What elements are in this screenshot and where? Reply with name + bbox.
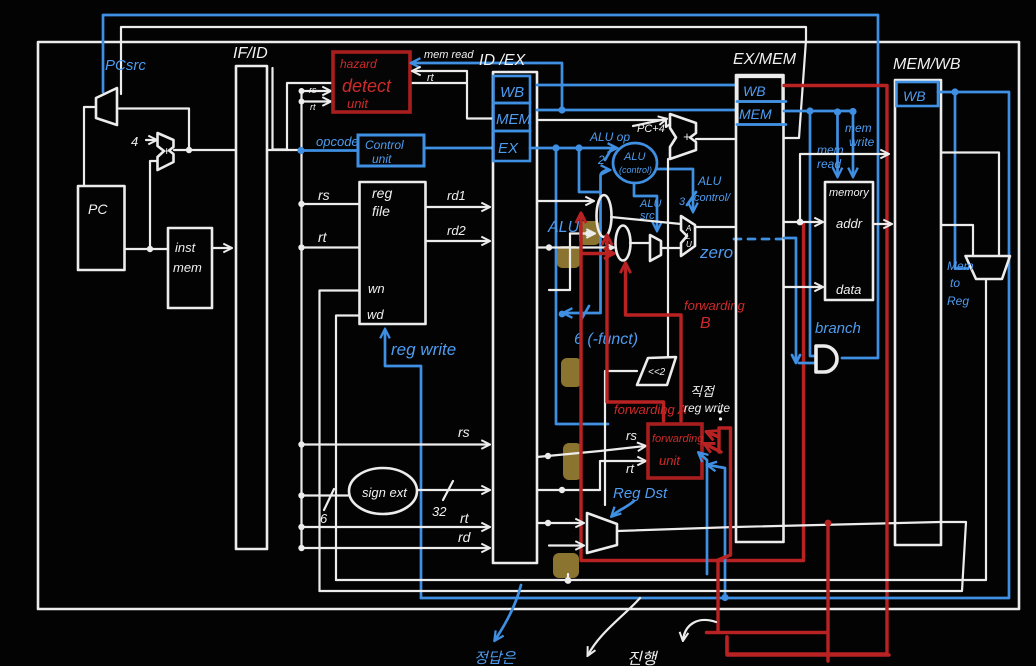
pipeline register MEM/WB [895,80,941,545]
highlight blob on ID/EX rs/rt [563,443,582,480]
wire: PC+4 passthrough from ID/EX to branch adder [539,120,670,127]
svg-text:3: 3 [679,196,686,208]
svg-text:detect: detect [342,76,392,96]
svg-text:rd1: rd1 [447,188,466,203]
svg-text:write: write [849,135,875,149]
blue annotation arrow bottom left [495,585,521,640]
wire: control unit to EX box [424,147,492,150]
red wire: forwarding path from EX/MEM ALU result [581,214,804,561]
wire: rt into RegDst mux [537,522,583,524]
wire: RegDst mux output across to MEM/WB [618,522,941,531]
stub from highlight to bus [567,574,569,580]
wire: mem read control down to memory [836,112,839,176]
blue arrows into forwarding unit from MEM/WB [699,453,707,574]
node on reg-write line [721,594,728,601]
wire: zero dashed to EX/MEM (blue dashed) [734,238,790,241]
PC register box [78,186,125,270]
svg-text:Mem: Mem [947,259,974,273]
node ALU result [797,219,804,226]
slash 3 [687,192,696,205]
inst mem box [168,228,212,308]
node funct [559,311,566,318]
wire: rd1 output to ID/EX [426,206,489,208]
svg-text:control/: control/ [694,192,731,204]
svg-text:EX/MEM: EX/MEM [733,51,797,68]
WB section of MEM/WB [897,82,939,106]
wire: memory output to MEM/WB [873,223,891,225]
ALU control unit U5 (circle) [613,143,657,183]
svg-text:rs: rs [626,428,637,443]
svg-text:rt: rt [460,510,470,526]
svg-text:6: 6 [320,511,328,526]
wire: shifted immediate up to adder [667,159,669,356]
node branch signal [806,107,813,114]
wire: ALU src select from ALU control (blue) [634,184,657,230]
highlight blob on ID/EX A [579,221,600,245]
pipeline register ID/EX [493,72,537,563]
wire: rs into hazard detect [302,90,331,92]
wire: loop below mux A [549,234,570,291]
node instruction bus vertical [300,89,302,548]
svg-text:Control: Control [365,138,404,152]
slash 6 on sign ext input [324,489,334,510]
wire: rt from ID/EX to forwarding unit [537,461,645,490]
svg-text:mem: mem [173,260,202,275]
wire: IF/ID edge double line [273,68,288,150]
wire: adder output to IF/ID [174,149,235,151]
slash 32 [443,481,453,500]
wire: wd from write-data bus [336,316,360,581]
wire: rt wire to ID/EX [302,526,490,528]
mux M2 (forward A) [597,195,612,237]
wire: EX control out of ID/EX (blue) [530,147,616,150]
wire: extra input into mux A lower [570,232,594,234]
slash 2 on ALU op [605,146,613,160]
wire: rd wire to ID/EX [302,547,490,549]
wire: inst mem output arrow to IF/ID [212,247,231,249]
wire: rd into RegDst mux [549,544,583,546]
ALU U8 [681,216,695,256]
node opcode junction [297,147,304,154]
highlight blob at ID/EX bottom [553,553,579,578]
svg-text:WB: WB [903,88,926,104]
AND gate U10 [816,346,837,372]
red wire: forwarding A control [607,236,664,421]
svg-text:rt: rt [318,229,328,245]
svg-text:forwarding A: forwarding A [614,402,687,417]
wire: feedback up to +4 adder [150,161,157,249]
svg-text:reg write: reg write [684,401,730,415]
wire: WB control out of MEM/WB (blue regwrite path) [421,92,1009,598]
svg-text:rt: rt [427,72,435,84]
svg-text:forwarding: forwarding [652,433,704,445]
node mem write [849,108,856,115]
EX section of ID/EX [494,131,531,161]
svg-text:opcode: opcode [316,134,359,149]
svg-text:rs: rs [318,187,330,203]
wire: mem-to-reg select (blue) [955,92,968,269]
svg-text:2: 2 [597,153,605,167]
svg-text:memory: memory [829,187,870,199]
wire: funct field to ALU control (blue) [564,148,601,313]
node red tap [825,520,832,527]
white hook annotation arrow [683,620,716,640]
reg file box [360,182,426,324]
svg-text:진행: 진행 [627,650,659,666]
svg-text:32: 32 [432,504,447,519]
sign ext oval U4 [349,468,417,514]
mux M5 (RegDst) [587,513,617,553]
MEM section of ID/EX [494,103,531,131]
hazard detect unit U2 [333,52,410,112]
svg-text:MEM: MEM [496,111,532,128]
svg-text:(control): (control) [619,165,652,175]
svg-text:B: B [700,315,711,332]
wire: mem write control down to memory [852,112,855,177]
wire: branch target from EX/MEM up over the top to PC mux [121,27,806,138]
svg-text:Reg: Reg [947,294,969,308]
pipeline register EX/MEM [736,75,784,542]
svg-text:정답은: 정답은 [474,650,517,666]
white annotation arrow bottom center [588,598,640,655]
highlight blob on ID/EX funct [561,358,582,387]
wire: mux B output to ALU src mux [630,242,649,244]
wire: sign ext output 32 to ID/EX [417,489,489,491]
mux M1 (PC source mux) [96,88,117,125]
wire: EX control down to ALU src (blue) [556,148,608,424]
svg-text:ALU: ALU [697,174,722,188]
wire: MEM/WB read data to mux [941,153,999,256]
dotted mark below label [718,410,721,413]
wire: branch adder output to EX/MEM [696,138,735,140]
wire: reg write control (blue) [385,330,421,598]
wire: sign ext input [302,494,349,496]
wire: zero flag from EX/MEM to AND gate (blue) [784,238,815,363]
svg-text:PCsrc: PCsrc [105,57,146,74]
svg-text:WB: WB [743,83,766,99]
svg-text:read: read [817,157,841,171]
svg-text:branch: branch [815,320,861,337]
svg-text:ALU: ALU [623,151,645,163]
forwarding unit U9 [648,424,702,478]
red wire: forwarding B control [626,264,682,421]
wire: ID/EX rd1 to forward mux A [537,200,593,202]
constant 4 input arrow [146,139,156,141]
svg-text:<<2: <<2 [648,367,666,378]
mux M6 (mem to reg) [966,256,1011,279]
node regwrite split [951,88,958,95]
svg-text:unit: unit [347,96,369,111]
blue arrow to RegDst mux [612,501,634,516]
svg-text:sign ext: sign ext [362,485,408,500]
svg-text:zero: zero [699,243,733,262]
blue arrow from funct riser into ALU control [601,170,610,192]
svg-text:rt: rt [310,102,316,112]
svg-text:4: 4 [131,134,138,149]
wire: ALU src mux output to ALU [661,247,680,249]
red wire loop feeding forwarding unit from right [719,428,731,452]
blue arrowhead on zero drop [792,355,800,363]
wire: ALU result to EX/MEM [695,226,735,228]
svg-text:addr: addr [836,216,863,231]
svg-text:Reg Dst: Reg Dst [613,485,668,502]
pipeline register IF/ID [236,66,267,549]
wire: wn from write-register bus [320,291,360,592]
wire: store data to memory data [784,286,822,288]
wire: MEM/WB ALU result to mux [941,225,973,255]
red wire: WB field of EX/MEM to MEM/WB (long loop) [727,86,887,655]
node mem read [834,108,841,115]
highlight blob on ID/EX B [557,246,580,268]
blue separator ticks on EX/MEM [737,102,786,125]
svg-text:unit: unit [659,453,681,468]
svg-text:reg: reg [372,185,392,201]
wire: instruction bus from IF/ID [267,149,300,151]
svg-text:file: file [372,203,390,219]
junction on PC output [147,246,153,252]
svg-text:ALU op: ALU op [589,130,630,144]
wire: rt bus tap to reg file [302,246,360,248]
node EX control A [552,144,559,151]
svg-text:MEM/WB: MEM/WB [893,56,961,73]
adder U1 (PC+4) [158,133,174,170]
wire: EX/MEM ALU result to memory addr [784,221,822,223]
wire: PC+4 into mux lower input [119,109,189,151]
wire: mem read from ID/EX into hazard (blue) [412,63,562,110]
red arrow scribble 2 [705,444,721,452]
wire: opcode to control unit [301,149,357,152]
wire: ALU result up and over to MEM/WB [800,154,888,222]
node on white bus under ID/EX [565,577,572,584]
wire: instruction bus riser to hazard unit [287,83,466,150]
wire: rs from ID/EX to forwarding unit [537,446,645,457]
svg-text:hazard: hazard [340,57,377,71]
wire: PC output to inst mem [125,248,168,250]
svg-text:mem: mem [845,121,872,135]
wire: PCSrc blue control from AND gate to PC mux [103,15,878,358]
svg-text:rt: rt [626,461,635,476]
wire: rt into hazard detect [302,100,331,102]
slash on funct [581,306,589,320]
node on M control [558,106,565,113]
svg-text:to: to [950,276,960,290]
shift left 2 unit U7 [637,357,676,385]
wire: mux A output to ALU top input [611,217,681,224]
svg-text:IF/ID: IF/ID [233,45,268,62]
svg-text:inst: inst [175,240,197,255]
svg-text:rd: rd [458,529,472,545]
svg-text:WB: WB [500,84,524,101]
wire: rs long wire to ID/EX [302,443,490,445]
svg-text:ID /EX: ID /EX [479,52,527,69]
wire: rt from ID/EX back into hazard (white) [413,71,493,119]
svg-text:PC: PC [88,201,108,217]
svg-text:wn: wn [368,281,385,296]
mux M4 (ALU src) [650,235,661,261]
wire: immediate riser into shifter [605,371,637,505]
wire: branch control down to AND gate (blue) [810,111,815,356]
junction on PC+4 wire [186,147,192,153]
wire: M control from ID/EX to EX/MEM (blue) [537,109,735,112]
wire: PC+4 arrow into branch adder [633,119,666,126]
memory box [825,182,873,300]
svg-text:reg write: reg write [391,340,456,359]
MEM section of EX/MEM [738,102,783,125]
WB section of ID/EX [494,76,531,103]
svg-text:mem read: mem read [424,49,474,61]
red wire: branch of forward into mux A lower [581,252,613,255]
wire: rs bus tap to reg file [302,203,360,205]
svg-text:+: + [683,129,691,144]
red wire: forwarding unit outputs to bottom rail [707,428,890,661]
red arrow scribble 1 [707,432,719,437]
svg-text:EX: EX [498,140,519,157]
node EX control B [575,144,582,151]
svg-text:wd: wd [367,307,384,322]
svg-text:U: U [686,240,692,249]
svg-text:rs: rs [309,85,317,95]
adder U6 (branch target) [670,114,696,159]
wire: ID/EX rd2 to forward mux B [537,246,613,248]
wire: write register number return bus [320,522,967,591]
wire: PC mux output down into PC [84,107,96,185]
wire: rd2 output to ID/EX [426,240,489,242]
svg-text:직접: 직접 [690,384,715,399]
svg-text:rs: rs [458,424,470,440]
wire: WB control from ID/EX to EX/MEM (blue) [537,84,735,87]
svg-text:rd2: rd2 [447,223,467,238]
svg-text:unit: unit [372,152,392,166]
wire: ALU control to ALU (blue) [657,169,693,211]
wire: mux output down to write data bus [336,279,986,580]
svg-text:data: data [836,282,861,297]
control unit U3 [358,135,424,166]
svg-text:+: + [163,144,170,158]
WB section of EX/MEM [738,77,783,102]
mux M3 (forward B) [616,226,631,261]
svg-text:MEM: MEM [739,106,772,122]
wire: M control right of EX/MEM (blue) [784,110,853,113]
